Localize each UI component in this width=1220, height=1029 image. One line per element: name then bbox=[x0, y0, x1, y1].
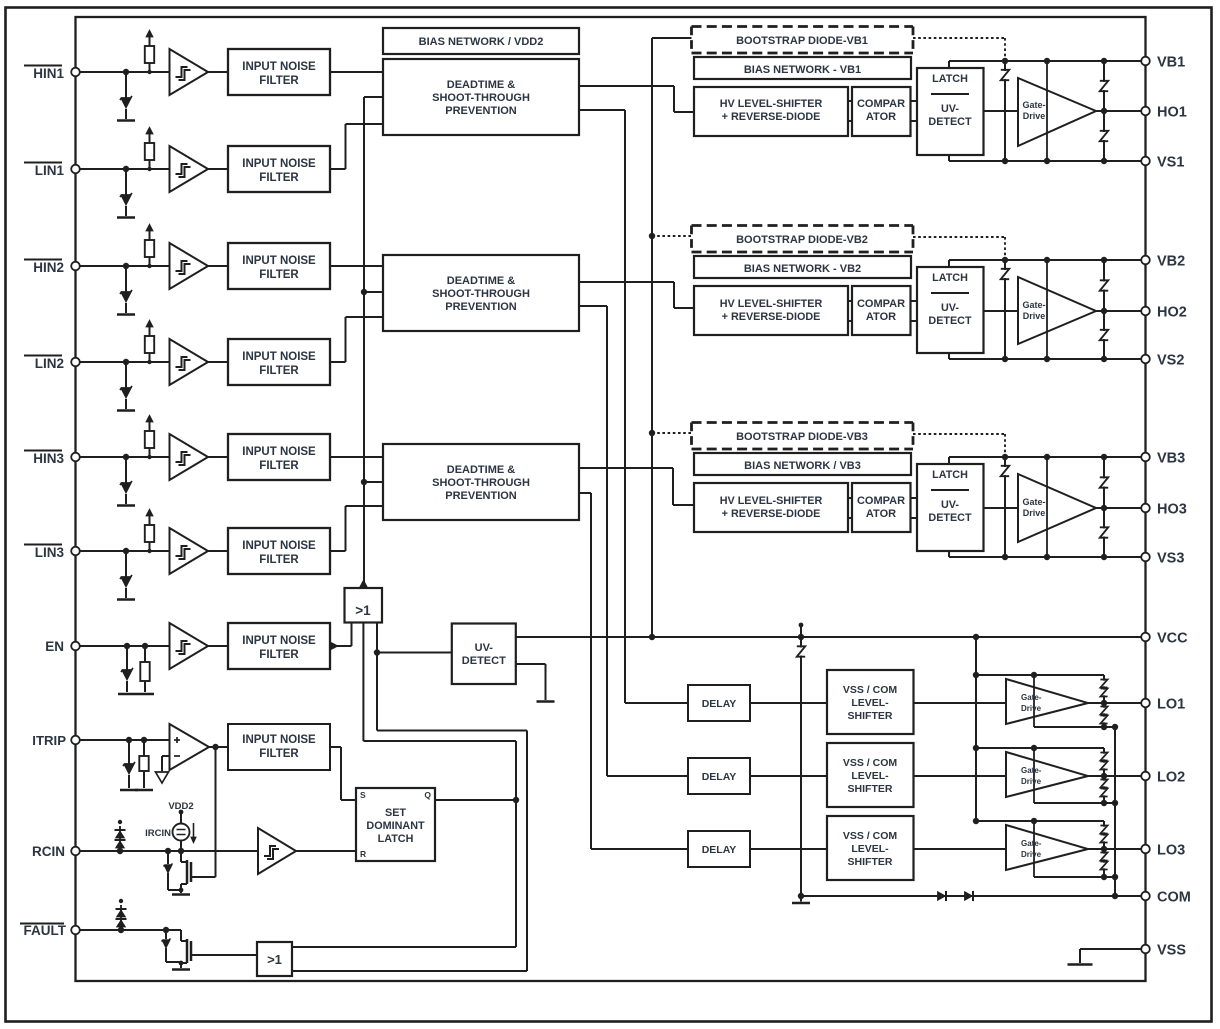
svg-text:VCC: VCC bbox=[1157, 631, 1188, 647]
svg-text:S: S bbox=[360, 790, 366, 800]
svg-text:HV LEVEL-SHIFTER: HV LEVEL-SHIFTER bbox=[720, 98, 823, 110]
svg-text:DOMINANT: DOMINANT bbox=[366, 820, 425, 832]
svg-text:VDD2: VDD2 bbox=[168, 801, 193, 812]
svg-text:COMPAR: COMPAR bbox=[857, 298, 905, 310]
svg-text:BIAS NETWORK - VB2: BIAS NETWORK - VB2 bbox=[744, 263, 861, 275]
svg-text:VB1: VB1 bbox=[1157, 55, 1185, 71]
svg-text:INPUT NOISE: INPUT NOISE bbox=[242, 540, 316, 552]
svg-text:+ REVERSE-DIODE: + REVERSE-DIODE bbox=[722, 111, 821, 123]
svg-text:UV-: UV- bbox=[941, 103, 959, 115]
svg-text:INPUT NOISE: INPUT NOISE bbox=[242, 158, 316, 170]
svg-text:SHIFTER: SHIFTER bbox=[848, 783, 893, 795]
svg-text:VSS / COM: VSS / COM bbox=[843, 684, 898, 696]
svg-text:SHIFTER: SHIFTER bbox=[848, 856, 893, 868]
svg-text:+ REVERSE-DIODE: + REVERSE-DIODE bbox=[722, 508, 821, 520]
svg-text:LEVEL-: LEVEL- bbox=[851, 770, 889, 782]
svg-text:IRCIN: IRCIN bbox=[145, 828, 171, 839]
svg-text:DEADTIME &: DEADTIME & bbox=[447, 464, 516, 476]
svg-text:VB2: VB2 bbox=[1157, 254, 1185, 270]
svg-text:Drive: Drive bbox=[1023, 311, 1046, 321]
svg-text:Gate-: Gate- bbox=[1022, 100, 1045, 110]
svg-text:Gate-: Gate- bbox=[1021, 693, 1042, 702]
svg-text:BOOTSTRAP DIODE-VB2: BOOTSTRAP DIODE-VB2 bbox=[736, 234, 868, 246]
svg-text:LIN1: LIN1 bbox=[35, 163, 65, 178]
svg-text:FILTER: FILTER bbox=[259, 748, 299, 760]
svg-text:R: R bbox=[360, 849, 366, 859]
svg-text:HIN1: HIN1 bbox=[33, 66, 64, 81]
svg-text:COM: COM bbox=[1157, 890, 1191, 906]
svg-text:BOOTSTRAP DIODE-VB1: BOOTSTRAP DIODE-VB1 bbox=[736, 35, 868, 47]
svg-text:DETECT: DETECT bbox=[928, 512, 972, 524]
svg-text:FILTER: FILTER bbox=[259, 554, 299, 566]
svg-text:VSS / COM: VSS / COM bbox=[843, 830, 898, 842]
svg-text:LATCH: LATCH bbox=[932, 73, 968, 85]
svg-text:FILTER: FILTER bbox=[259, 172, 299, 184]
svg-text:LO3: LO3 bbox=[1157, 843, 1185, 859]
svg-text:BIAS NETWORK - VB1: BIAS NETWORK - VB1 bbox=[744, 64, 861, 76]
svg-text:PREVENTION: PREVENTION bbox=[445, 301, 517, 313]
svg-text:LATCH: LATCH bbox=[932, 469, 968, 481]
svg-text:UV-: UV- bbox=[941, 302, 959, 314]
svg-text:LIN2: LIN2 bbox=[35, 356, 64, 371]
svg-text:Gate-: Gate- bbox=[1022, 300, 1045, 310]
svg-text:BOOTSTRAP DIODE-VB3: BOOTSTRAP DIODE-VB3 bbox=[736, 431, 868, 443]
svg-text:HO2: HO2 bbox=[1157, 305, 1187, 321]
svg-text:INPUT NOISE: INPUT NOISE bbox=[242, 255, 316, 267]
svg-text:SHIFTER: SHIFTER bbox=[848, 710, 893, 722]
svg-text:FAULT: FAULT bbox=[24, 923, 67, 938]
svg-text:+ REVERSE-DIODE: + REVERSE-DIODE bbox=[722, 311, 821, 323]
svg-text:LEVEL-: LEVEL- bbox=[851, 697, 889, 709]
svg-text:COMPAR: COMPAR bbox=[857, 495, 905, 507]
svg-text:BIAS NETWORK / VB3: BIAS NETWORK / VB3 bbox=[744, 460, 861, 472]
svg-text:HIN2: HIN2 bbox=[33, 260, 64, 275]
svg-text:DEADTIME &: DEADTIME & bbox=[447, 275, 516, 287]
svg-text:DELAY: DELAY bbox=[702, 771, 737, 783]
svg-text:UV-: UV- bbox=[941, 499, 959, 511]
svg-text:ATOR: ATOR bbox=[866, 311, 896, 323]
svg-text:Drive: Drive bbox=[1023, 508, 1046, 518]
svg-text:RCIN: RCIN bbox=[32, 844, 65, 859]
svg-text:VS1: VS1 bbox=[1157, 155, 1184, 171]
svg-text:VSS: VSS bbox=[1157, 943, 1186, 959]
svg-text:VSS / COM: VSS / COM bbox=[843, 757, 898, 769]
svg-text:HV LEVEL-SHIFTER: HV LEVEL-SHIFTER bbox=[720, 495, 823, 507]
svg-text:INPUT NOISE: INPUT NOISE bbox=[242, 734, 316, 746]
svg-text:LO1: LO1 bbox=[1157, 697, 1185, 713]
svg-text:SHOOT-THROUGH: SHOOT-THROUGH bbox=[432, 288, 530, 300]
svg-text:SET: SET bbox=[385, 807, 406, 819]
svg-text:DETECT: DETECT bbox=[928, 315, 972, 327]
svg-text:HIN3: HIN3 bbox=[33, 451, 64, 466]
svg-text:ATOR: ATOR bbox=[866, 508, 896, 520]
svg-text:Drive: Drive bbox=[1023, 111, 1046, 121]
svg-text:INPUT NOISE: INPUT NOISE bbox=[242, 61, 316, 73]
svg-text:INPUT NOISE: INPUT NOISE bbox=[242, 635, 316, 647]
svg-text:COMPAR: COMPAR bbox=[857, 98, 905, 110]
svg-text:HO1: HO1 bbox=[1157, 105, 1187, 121]
svg-text:VS2: VS2 bbox=[1157, 353, 1184, 369]
svg-text:LO2: LO2 bbox=[1157, 770, 1185, 786]
svg-text:LEVEL-: LEVEL- bbox=[851, 843, 889, 855]
svg-text:Drive: Drive bbox=[1021, 777, 1042, 786]
svg-text:SHOOT-THROUGH: SHOOT-THROUGH bbox=[432, 92, 530, 104]
svg-text:Gate-: Gate- bbox=[1022, 497, 1045, 507]
svg-text:Drive: Drive bbox=[1021, 704, 1042, 713]
svg-text:DETECT: DETECT bbox=[928, 116, 972, 128]
svg-text:FILTER: FILTER bbox=[259, 269, 299, 281]
svg-text:LATCH: LATCH bbox=[378, 833, 414, 845]
svg-text:UV-: UV- bbox=[475, 642, 494, 654]
svg-text:Gate-: Gate- bbox=[1021, 839, 1042, 848]
svg-text:FILTER: FILTER bbox=[259, 460, 299, 472]
svg-text:LATCH: LATCH bbox=[932, 272, 968, 284]
svg-text:INPUT NOISE: INPUT NOISE bbox=[242, 351, 316, 363]
svg-text:FILTER: FILTER bbox=[259, 365, 299, 377]
svg-text:PREVENTION: PREVENTION bbox=[445, 490, 517, 502]
svg-text:ATOR: ATOR bbox=[866, 111, 896, 123]
svg-text:Drive: Drive bbox=[1021, 850, 1042, 859]
svg-text:FILTER: FILTER bbox=[259, 649, 299, 661]
svg-text:DELAY: DELAY bbox=[702, 698, 737, 710]
svg-text:Gate-: Gate- bbox=[1021, 766, 1042, 775]
svg-text:ITRIP: ITRIP bbox=[32, 733, 66, 748]
svg-text:Q: Q bbox=[424, 790, 431, 800]
svg-text:DEADTIME &: DEADTIME & bbox=[447, 79, 516, 91]
svg-text:DETECT: DETECT bbox=[462, 655, 506, 667]
svg-text:HO3: HO3 bbox=[1157, 502, 1187, 518]
svg-text:>1: >1 bbox=[267, 952, 282, 967]
svg-text:BIAS NETWORK / VDD2: BIAS NETWORK / VDD2 bbox=[419, 36, 544, 48]
svg-text:VB3: VB3 bbox=[1157, 451, 1185, 467]
svg-text:HV LEVEL-SHIFTER: HV LEVEL-SHIFTER bbox=[720, 298, 823, 310]
svg-text:FILTER: FILTER bbox=[259, 75, 299, 87]
svg-text:>1: >1 bbox=[355, 603, 371, 618]
svg-text:INPUT NOISE: INPUT NOISE bbox=[242, 446, 316, 458]
svg-text:EN: EN bbox=[45, 639, 64, 654]
svg-text:PREVENTION: PREVENTION bbox=[445, 105, 517, 117]
svg-text:DELAY: DELAY bbox=[702, 844, 737, 856]
svg-text:SHOOT-THROUGH: SHOOT-THROUGH bbox=[432, 477, 530, 489]
svg-text:VS3: VS3 bbox=[1157, 551, 1184, 567]
svg-text:LIN3: LIN3 bbox=[35, 545, 65, 560]
